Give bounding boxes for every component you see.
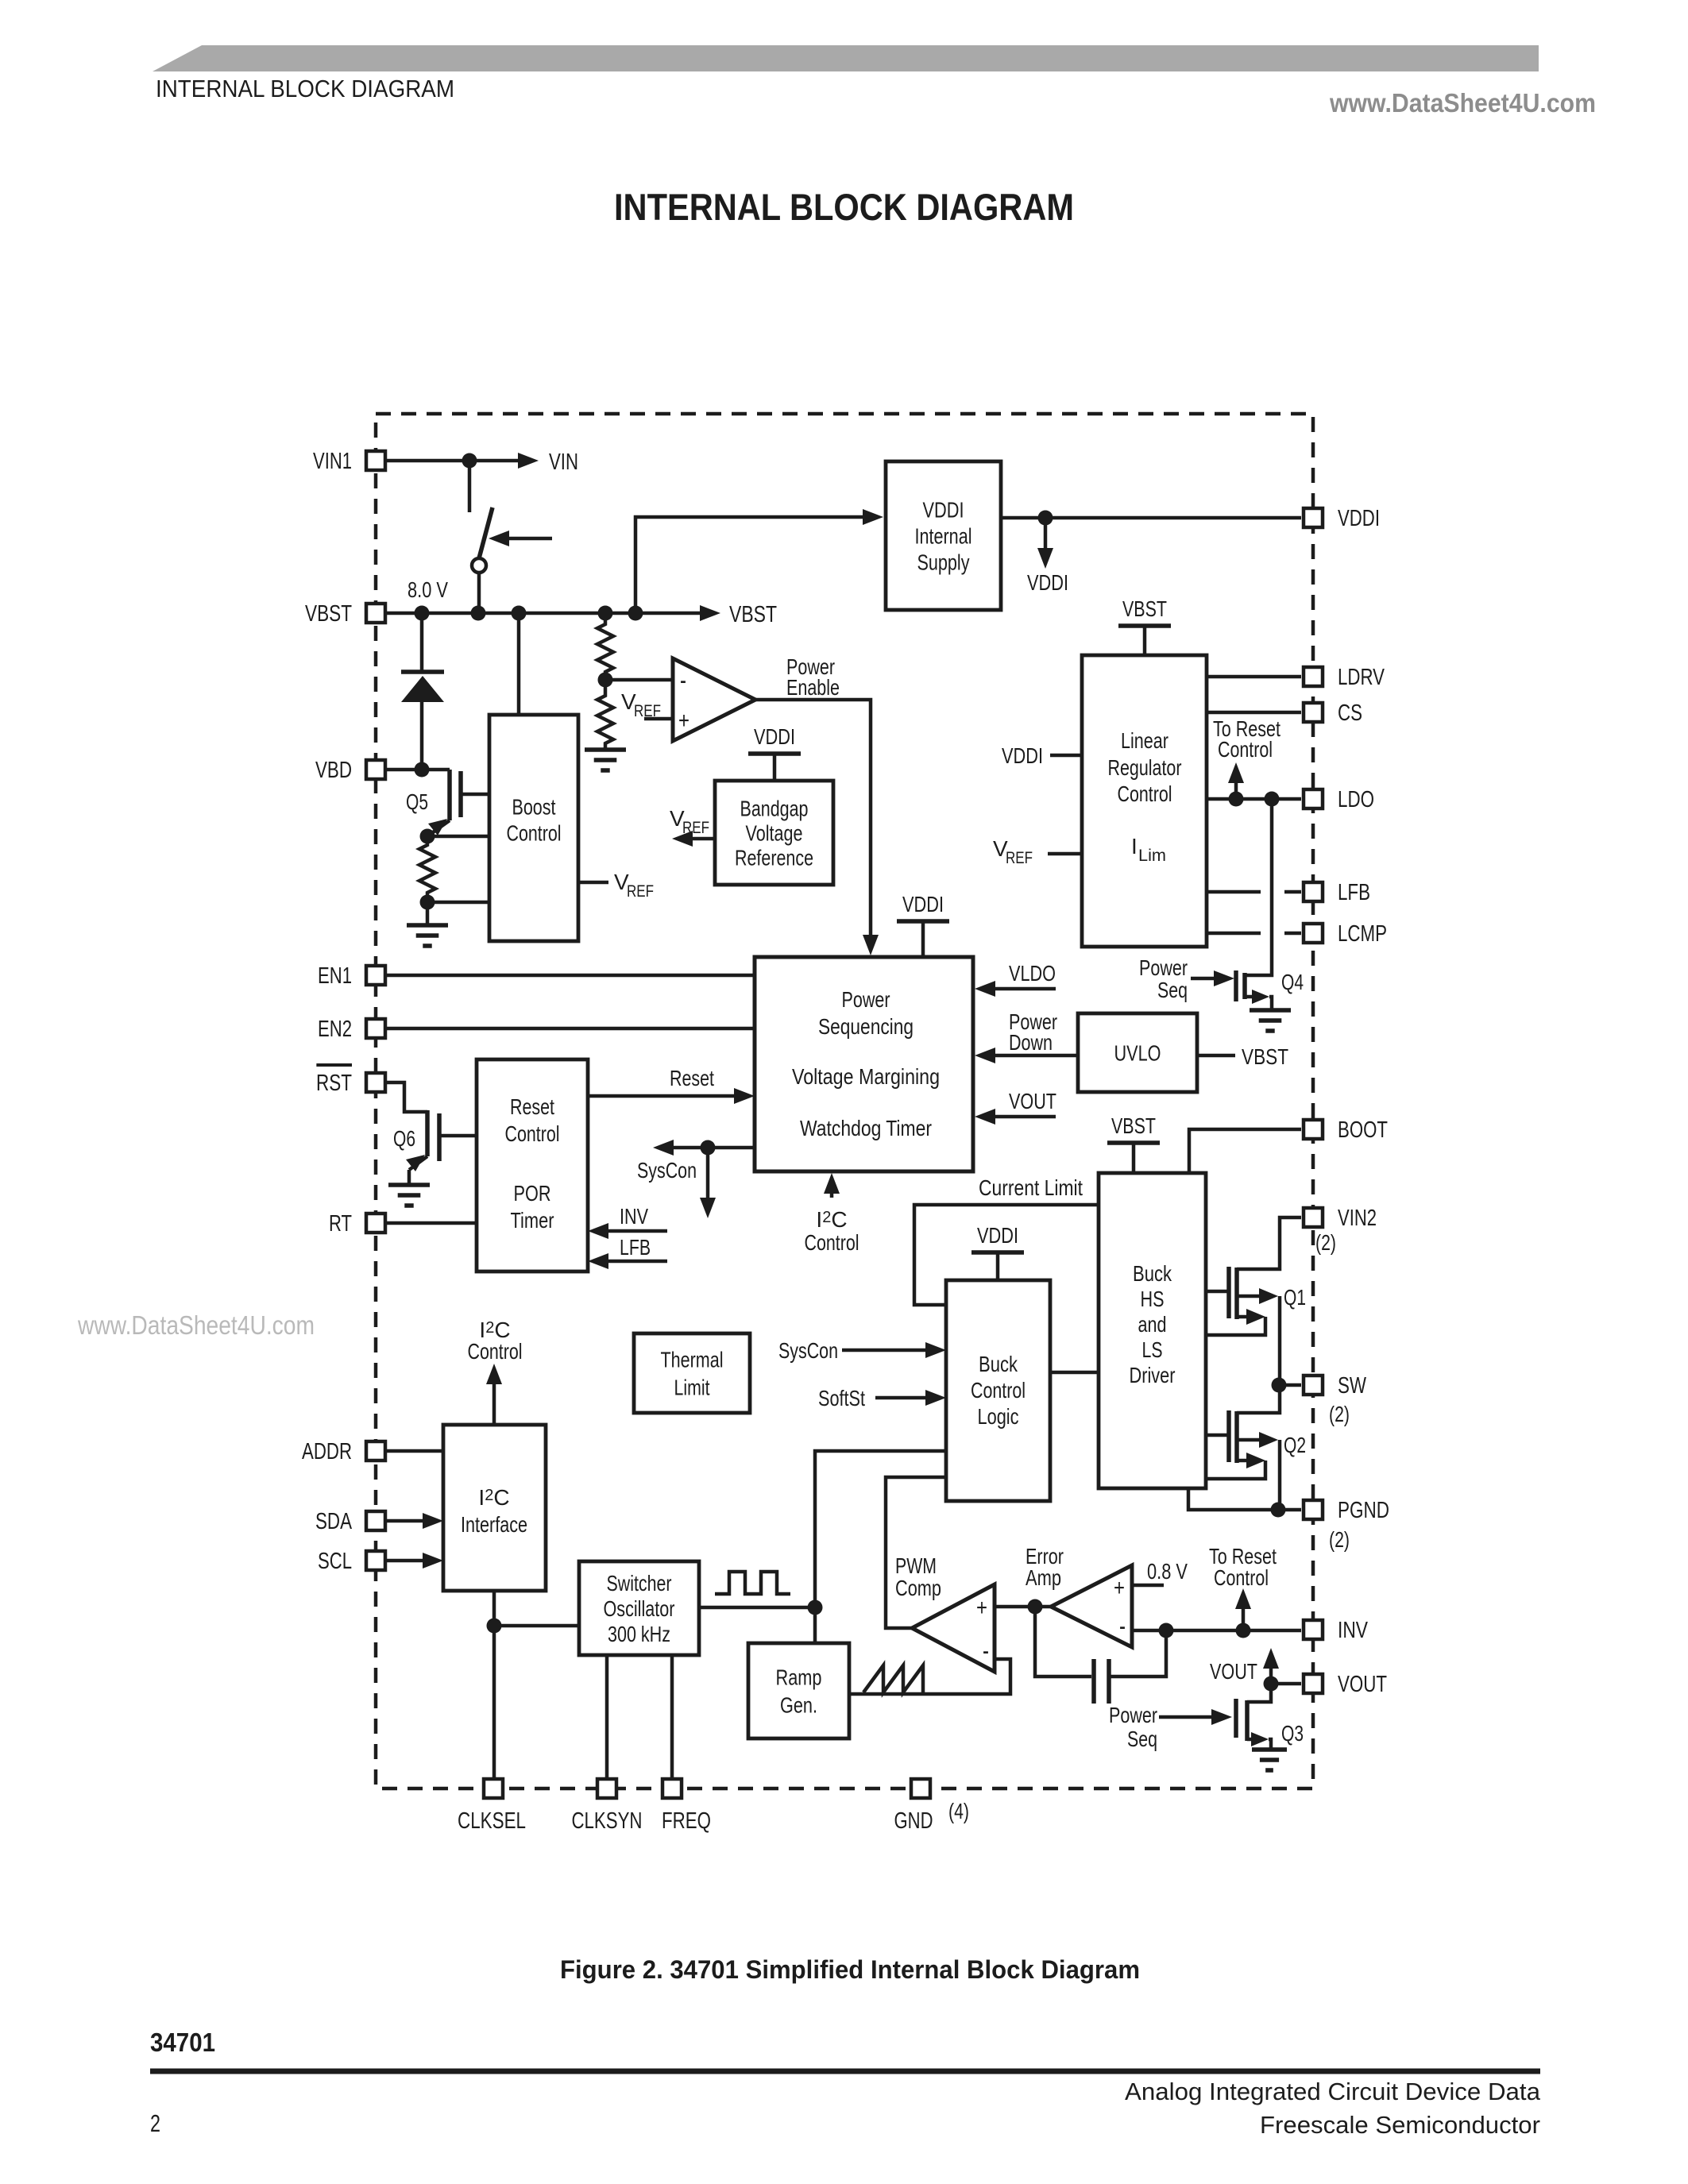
pin GND: [894, 1779, 933, 1834]
svg-text:VBST: VBST: [1122, 596, 1167, 621]
to reset control arrow up: [1228, 762, 1244, 799]
svg-text:SysCon: SysCon: [637, 1158, 697, 1183]
label VBST: [729, 602, 777, 627]
wire RST to Q6 drain: [387, 1082, 427, 1112]
power seq arrow into Q4 gate: [1191, 970, 1234, 986]
svg-text:Seq: Seq: [1157, 978, 1188, 1002]
wire LDO to Q4 drain: [1245, 799, 1272, 975]
node VBST switch branch: [471, 606, 486, 621]
svg-text:SoftSt: SoftSt: [818, 1386, 865, 1410]
label (2) VIN2: [1315, 1230, 1336, 1255]
wire divider to comparator minus: [605, 678, 673, 682]
pin EN2: [318, 1017, 385, 1042]
svg-text:EN2: EN2: [318, 1017, 352, 1042]
svg-text:Comp: Comp: [895, 1576, 941, 1600]
svg-text:RT: RT: [329, 1211, 352, 1237]
wire CS: [1207, 711, 1301, 715]
svg-text:-: -: [983, 1636, 989, 1666]
pin VOUT: [1304, 1672, 1387, 1697]
svg-text:VOUT: VOUT: [1009, 1089, 1056, 1113]
svg-text:www.DataSheet4U.com: www.DataSheet4U.com: [77, 1310, 315, 1340]
svg-text:Buck: Buck: [1133, 1261, 1172, 1286]
svg-text:(2): (2): [1315, 1230, 1336, 1255]
transistor Q5: [427, 770, 489, 836]
pin ADDR: [302, 1439, 385, 1464]
ground below Q3: [1252, 1750, 1287, 1770]
pin BOOT: [1304, 1117, 1388, 1143]
wire ADDR: [387, 1449, 443, 1453]
svg-text:VBD: VBD: [315, 758, 352, 783]
svg-text:8.0 V: 8.0 V: [408, 577, 448, 602]
svg-text:SW: SW: [1338, 1373, 1366, 1399]
node feedback: [1159, 1623, 1174, 1638]
svg-text:+: +: [976, 1595, 987, 1621]
svg-text:2: 2: [150, 2109, 160, 2137]
label VLDO: [1009, 961, 1056, 986]
I2C control arrow into power sequencing: [824, 1173, 840, 1198]
footer rule: [150, 2069, 1540, 2074]
svg-text:Amp: Amp: [1026, 1565, 1061, 1590]
svg-text:Control: Control: [468, 1339, 523, 1364]
svg-text:+: +: [1114, 1575, 1125, 1601]
svg-text:Bandgap: Bandgap: [740, 796, 809, 820]
svg-text:POR: POR: [514, 1181, 551, 1206]
pin RST: [316, 1065, 385, 1096]
svg-text:VDDI: VDDI: [1338, 506, 1380, 531]
wire Q2 source to PGND: [1278, 1440, 1282, 1510]
pin VIN1: [313, 449, 385, 474]
wire CLKSYN stub: [605, 1655, 609, 1777]
wire LFB into reset control: [588, 1253, 667, 1269]
capacitor C1: [1094, 1659, 1109, 1704]
svg-text:VDDI: VDDI: [902, 892, 944, 916]
wire EN1: [387, 974, 755, 978]
svg-text:INV: INV: [620, 1204, 648, 1229]
svg-text:REF: REF: [1006, 849, 1033, 867]
wire VBST rail: [387, 605, 720, 621]
svg-text:SDA: SDA: [315, 1509, 352, 1534]
svg-text:LS: LS: [1142, 1337, 1163, 1362]
rail VDDI above bandgap: [748, 724, 801, 781]
svg-text:Q6: Q6: [393, 1126, 415, 1151]
wire switch to VBST rail: [477, 573, 481, 613]
node Q5 source: [420, 829, 435, 844]
svg-text:Reset: Reset: [670, 1066, 714, 1090]
svg-text:LCMP: LCMP: [1338, 921, 1387, 947]
block Ramp Gen: [748, 1643, 849, 1738]
VDDI down arrow: [1037, 518, 1053, 569]
svg-text:REF: REF: [627, 882, 654, 901]
pin RT: [329, 1211, 385, 1237]
transistor Q2: [1206, 1410, 1278, 1479]
label Q5: [406, 789, 428, 814]
label Power Seq at Q4: [1139, 955, 1188, 1002]
ground below divider: [585, 750, 626, 770]
svg-text:Power: Power: [1139, 955, 1188, 980]
pin LDRV: [1304, 665, 1385, 690]
svg-text:Linear: Linear: [1121, 728, 1168, 753]
svg-text:VBST: VBST: [729, 602, 777, 627]
header gray bar: [153, 45, 1539, 71]
op-amp PWM comparator: [912, 1584, 995, 1672]
label Q3: [1281, 1721, 1304, 1746]
svg-text:Reference: Reference: [735, 845, 813, 870]
label To Reset Control lower: [1209, 1544, 1277, 1590]
pin CLKSEL: [458, 1779, 526, 1834]
node VBST supply branch: [628, 606, 643, 621]
svg-text:LFB: LFB: [1338, 880, 1370, 905]
svg-text:Driver: Driver: [1130, 1363, 1176, 1387]
block Thermal Limit: [634, 1333, 750, 1413]
node R1 bottom: [420, 895, 435, 910]
wire VIN1 to VIN arrow: [387, 453, 539, 469]
svg-text:Switcher: Switcher: [607, 1571, 672, 1596]
label 8.0 V: [408, 577, 448, 602]
wire VLDO into power sequencing: [975, 981, 1056, 997]
svg-text:Power: Power: [1109, 1703, 1157, 1727]
block Linear Regulator Control: [1082, 655, 1207, 947]
to reset control arrow up lower: [1235, 1588, 1251, 1630]
svg-text:VIN2: VIN2: [1338, 1206, 1377, 1231]
wire SysCon into buck control: [842, 1342, 946, 1358]
wire INV into reset control: [588, 1223, 667, 1239]
pin CLKSYN: [572, 1779, 643, 1834]
node LDO Q4 branch: [1265, 792, 1280, 807]
wire VBST node down to boost control: [517, 613, 521, 715]
svg-text:PGND: PGND: [1338, 1498, 1389, 1523]
svg-text:Regulator: Regulator: [1108, 755, 1182, 780]
block Buck Control Logic: [946, 1280, 1050, 1501]
node VBD: [415, 762, 430, 778]
svg-text:PWM: PWM: [895, 1553, 937, 1578]
svg-text:VDDI: VDDI: [1002, 743, 1043, 768]
node VBST boost branch: [512, 606, 527, 621]
label SysCon: [637, 1158, 697, 1183]
label Current Limit: [979, 1175, 1083, 1200]
label Error Amp: [1026, 1544, 1064, 1590]
wire VOUT to Q3 drain: [1247, 1684, 1271, 1702]
wire FREQ stub: [670, 1655, 674, 1777]
wire LDO: [1207, 797, 1301, 801]
svg-text:Boost: Boost: [512, 794, 556, 819]
wire oscillator to buck control: [815, 1451, 946, 1607]
block UVLO: [1078, 1013, 1197, 1092]
svg-text:UVLO: UVLO: [1114, 1040, 1161, 1065]
pin SCL: [318, 1549, 385, 1574]
label Q2: [1284, 1433, 1306, 1457]
label SysCon into buck control: [778, 1338, 838, 1363]
label Power Seq at Q3: [1109, 1703, 1157, 1751]
sawtooth symbol: [863, 1665, 923, 1692]
wire VOUT into power sequencing: [975, 1109, 1056, 1125]
svg-text:Q2: Q2: [1284, 1433, 1306, 1457]
op-amp U1 power enable comparator: [673, 658, 755, 741]
watermark www.DataSheet4U.com top right: [1329, 88, 1596, 118]
svg-text:I: I: [1131, 834, 1138, 859]
square wave symbol: [715, 1572, 790, 1594]
label VREF divider: [621, 689, 661, 720]
wire VIN2 to Q1 drain: [1237, 1217, 1301, 1269]
svg-text:Voltage Margining: Voltage Margining: [792, 1064, 940, 1089]
wire SDA: [387, 1513, 443, 1529]
rail VBST above linear regulator: [1118, 596, 1171, 655]
label INV into reset control: [620, 1204, 648, 1229]
wire SW to Q2 drain: [1237, 1385, 1280, 1413]
wire SW pin: [1279, 1383, 1301, 1387]
svg-text:HS: HS: [1141, 1287, 1165, 1311]
wire error amp minus to INV pin: [1132, 1629, 1301, 1633]
svg-text:Voltage: Voltage: [746, 820, 803, 845]
svg-text:INV: INV: [1338, 1618, 1369, 1643]
wire VBST to VDDI internal supply: [635, 509, 883, 613]
label PWM Comp: [895, 1553, 941, 1600]
wire VBST to diode: [420, 613, 424, 672]
svg-text:Q5: Q5: [406, 789, 428, 814]
svg-text:VLDO: VLDO: [1009, 961, 1056, 986]
svg-text:RST: RST: [316, 1071, 352, 1096]
label VDDI into linear regulator: [1002, 743, 1082, 768]
wire 0.8V reference stub: [1132, 1584, 1164, 1588]
pin VBD: [315, 758, 385, 783]
svg-text:Q4: Q4: [1281, 970, 1304, 994]
block I2C Interface: [443, 1425, 546, 1591]
node VBST divider branch: [598, 606, 613, 621]
svg-text:(2): (2): [1329, 1527, 1350, 1552]
svg-text:ADDR: ADDR: [302, 1439, 352, 1464]
wire bandgap VREF output: [672, 831, 715, 847]
node I2C clk: [487, 1619, 502, 1634]
svg-text:LDRV: LDRV: [1338, 665, 1385, 690]
svg-text:Watchdog Timer: Watchdog Timer: [800, 1116, 932, 1140]
svg-text:Q3: Q3: [1281, 1721, 1304, 1746]
svg-text:www.DataSheet4U.com: www.DataSheet4U.com: [1329, 88, 1596, 118]
pin VBST: [305, 601, 385, 627]
ground below Q6: [388, 1185, 430, 1206]
wire node to oscillator: [494, 1624, 579, 1628]
pin SW: [1304, 1373, 1366, 1399]
ground below Q5 divider: [407, 925, 448, 946]
svg-text:0.8 V: 0.8 V: [1147, 1559, 1188, 1584]
node oscillator output: [808, 1600, 823, 1615]
svg-text:Internal: Internal: [915, 523, 972, 548]
svg-text:Control: Control: [805, 1230, 859, 1255]
figure caption: [560, 1955, 1140, 1984]
feedback wire to capacitor: [1035, 1607, 1091, 1677]
label SoftSt: [818, 1386, 865, 1410]
label Power Enable: [786, 654, 840, 700]
pin CS: [1304, 700, 1362, 726]
footer 34701: [150, 2028, 215, 2057]
node to reset control branch: [1236, 1623, 1251, 1638]
pin INV: [1304, 1618, 1369, 1643]
label (2) SW: [1329, 1402, 1350, 1426]
svg-text:VBST: VBST: [305, 601, 352, 627]
svg-text:Interface: Interface: [461, 1512, 527, 1537]
wire Q5 source to boost control: [427, 835, 489, 839]
node SW: [1272, 1378, 1287, 1393]
svg-text:INTERNAL BLOCK DIAGRAM: INTERNAL BLOCK DIAGRAM: [614, 186, 1074, 228]
svg-text:Down: Down: [1009, 1030, 1053, 1055]
svg-text:Control: Control: [1118, 781, 1172, 806]
svg-text:-: -: [1119, 1611, 1126, 1642]
svg-text:INTERNAL BLOCK DIAGRAM: INTERNAL BLOCK DIAGRAM: [156, 75, 454, 102]
svg-text:SysCon: SysCon: [778, 1338, 838, 1363]
label VOUT into power sequencing: [1009, 1089, 1056, 1113]
wire power down UVLO to power sequencing: [975, 1048, 1078, 1063]
transistor Q1: [1206, 1267, 1278, 1335]
wire current limit: [914, 1205, 1099, 1305]
svg-text:CS: CS: [1338, 700, 1362, 726]
label 0.8 V: [1147, 1559, 1188, 1584]
wire oscillator output: [699, 1606, 815, 1610]
wire SCL: [387, 1553, 443, 1569]
block Buck HS and LS Driver: [1099, 1173, 1206, 1488]
switch actuation arrow: [489, 531, 552, 546]
ground below Q4: [1250, 1010, 1291, 1031]
svg-text:LFB: LFB: [620, 1235, 651, 1260]
wire SoftSt into buck control: [875, 1390, 946, 1406]
block Boost Control: [489, 715, 578, 941]
svg-text:CLKSYN: CLKSYN: [572, 1808, 643, 1834]
svg-text:VBST: VBST: [1242, 1044, 1288, 1069]
svg-text:REF: REF: [682, 819, 709, 837]
wire error amp output to PWM plus: [995, 1605, 1051, 1609]
svg-text:Thermal: Thermal: [661, 1347, 724, 1372]
label VREF into linear regulator: [993, 836, 1082, 867]
label I2C Control above interface: [468, 1318, 523, 1364]
wire EN2: [387, 1027, 755, 1031]
label Q4: [1281, 970, 1304, 994]
svg-text:Supply: Supply: [917, 550, 970, 574]
svg-text:VOUT: VOUT: [1338, 1672, 1387, 1697]
node PGND: [1271, 1503, 1286, 1518]
svg-text:Limit: Limit: [674, 1375, 710, 1399]
label VDDI below arrow: [1027, 570, 1068, 595]
wire LCMP from regulator: [1207, 932, 1301, 936]
svg-text:Reset: Reset: [510, 1094, 554, 1119]
watermark www.DataSheet4U.com middle left: [77, 1310, 315, 1340]
label VOUT internal: [1210, 1659, 1257, 1684]
svg-text:Control: Control: [1214, 1565, 1269, 1590]
svg-text:I2C: I2C: [816, 1207, 847, 1232]
label Q6: [393, 1126, 415, 1151]
svg-text:VDDI: VDDI: [977, 1223, 1018, 1248]
op-amp error amplifier: [1051, 1565, 1132, 1647]
svg-text:Sequencing: Sequencing: [818, 1014, 914, 1039]
svg-text:LDO: LDO: [1338, 787, 1374, 812]
block Reset Control POR Timer: [477, 1059, 588, 1271]
block VDDI Internal Supply: [886, 461, 1001, 610]
switch blade and contact: [472, 507, 492, 573]
pin SDA: [315, 1509, 385, 1534]
svg-text:Current Limit: Current Limit: [979, 1175, 1083, 1200]
svg-text:and: and: [1138, 1312, 1167, 1337]
node error amp output: [1028, 1599, 1043, 1615]
wire VBD pin to node: [387, 768, 450, 772]
svg-text:Control: Control: [507, 820, 562, 845]
svg-text:SCL: SCL: [318, 1549, 352, 1574]
svg-text:Ramp: Ramp: [776, 1665, 822, 1689]
title INTERNAL BLOCK DIAGRAM: [614, 186, 1074, 228]
svg-text:300 kHz: 300 kHz: [608, 1622, 670, 1646]
footer Freescale Semiconductor: [1260, 2111, 1540, 2139]
wire I2C to oscillator and CLKSEL: [492, 1591, 496, 1777]
pin LCMP: [1304, 921, 1387, 947]
svg-text:-: -: [680, 666, 686, 696]
svg-text:CLKSEL: CLKSEL: [458, 1808, 526, 1834]
svg-text:VBST: VBST: [1111, 1113, 1156, 1138]
wire Q1 source to SW: [1278, 1296, 1282, 1385]
node SysCon: [701, 1140, 716, 1156]
wire Reset to power sequencing: [588, 1088, 755, 1104]
svg-text:Q1: Q1: [1284, 1285, 1306, 1310]
pin EN1: [318, 963, 385, 989]
wire divider to boost control: [427, 901, 489, 905]
label VIN: [549, 450, 578, 475]
pin PGND: [1304, 1498, 1389, 1523]
transistor Q6: [406, 1110, 477, 1185]
svg-text:+: +: [678, 708, 689, 734]
svg-text:Analog Integrated Circuit Devi: Analog Integrated Circuit Device Data: [1125, 2078, 1541, 2105]
resistor R3 lower divider: [597, 680, 613, 750]
node VOUT: [1264, 1677, 1279, 1692]
power seq arrow into Q3 gate: [1159, 1709, 1232, 1725]
wire power enable to power sequencing: [755, 700, 879, 955]
VOUT up arrow: [1263, 1648, 1279, 1684]
svg-text:Enable: Enable: [786, 675, 840, 700]
label LFB into reset control: [620, 1235, 651, 1260]
svg-text:Power: Power: [842, 987, 890, 1012]
wire buck control to driver: [1050, 1371, 1099, 1375]
rail VDDI above buck control logic: [971, 1223, 1024, 1280]
svg-text:Gen.: Gen.: [780, 1692, 817, 1717]
pin FREQ: [662, 1779, 711, 1834]
svg-text:Control: Control: [971, 1378, 1026, 1403]
block Bandgap Voltage Reference: [715, 781, 833, 885]
wire SysCon out of power sequencing: [653, 1140, 755, 1156]
wire VIN node down to switch: [468, 461, 472, 512]
pin VDDI: [1304, 506, 1380, 531]
svg-text:Timer: Timer: [511, 1208, 554, 1233]
svg-text:Figure 2. 34701 Simplified Int: Figure 2. 34701 Simplified Internal Bloc…: [560, 1955, 1140, 1984]
label Q1: [1284, 1285, 1306, 1310]
svg-text:BOOT: BOOT: [1338, 1117, 1388, 1143]
diode D1: [401, 672, 444, 702]
I2C control arrow up: [486, 1364, 502, 1425]
svg-text:FREQ: FREQ: [662, 1808, 711, 1834]
node on VIN wire: [462, 453, 477, 469]
rail VDDI above power sequencing: [897, 892, 949, 957]
svg-text:VIN: VIN: [549, 450, 578, 475]
pin VIN2: [1304, 1206, 1377, 1231]
svg-text:Lim: Lim: [1138, 847, 1166, 865]
header text INTERNAL BLOCK DIAGRAM: [156, 75, 454, 102]
block Power Sequencing: [755, 957, 973, 1171]
node VBST diode branch: [415, 606, 430, 621]
label VREF bandgap: [670, 806, 709, 837]
pin LDO: [1304, 787, 1374, 812]
svg-text:Control: Control: [505, 1121, 560, 1146]
svg-text:Freescale Semiconductor: Freescale Semiconductor: [1260, 2111, 1540, 2139]
label I2C Control below power sequencing: [805, 1207, 859, 1255]
svg-text:Logic: Logic: [978, 1404, 1019, 1429]
svg-text:Oscillator: Oscillator: [604, 1596, 675, 1621]
svg-text:(4): (4): [948, 1799, 969, 1823]
footer page 2: [150, 2109, 160, 2137]
wire LFB from regulator: [1207, 890, 1301, 894]
wire comparator plus stub: [644, 717, 673, 721]
label To Reset Control upper: [1213, 716, 1280, 762]
